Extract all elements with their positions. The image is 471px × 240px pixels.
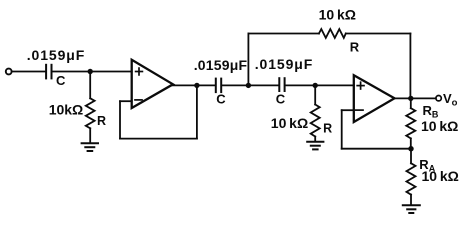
svg-text:.0159μF: .0159μF [27,47,85,63]
svg-text:R: R [323,121,332,135]
resistor R feedback 10k [319,29,346,38]
ground G2 [307,142,323,150]
svg-text:Vo: Vo [443,91,458,109]
wire top feedback right segment [346,33,411,35]
U1 plus input sign [136,71,143,73]
wire U2 output to Vo terminal [394,97,436,99]
wire top feedback left segment [248,33,319,35]
node D junction dot (between C2 and C3) [246,83,251,88]
op-amp U1 [132,60,173,108]
svg-text:.0159μF: .0159μF [255,56,313,72]
svg-text:R: R [97,114,106,128]
wire U1 minus input stub [120,100,132,102]
U1 minus input sign [135,99,142,101]
resistor R2 [311,105,320,137]
wire R1 to ground [89,128,91,143]
svg-text:RB: RB [423,103,439,119]
wire node F down to RB [410,98,412,108]
node E junction dot [313,83,318,88]
resistor R1 [86,98,95,128]
svg-text:10 kΩ: 10 kΩ [271,115,308,131]
svg-text:C: C [276,92,286,107]
svg-text:C: C [56,73,66,88]
wire U1 output to C2 [173,84,216,86]
U2 minus input sign [356,109,363,111]
wire node A down to R1 [89,72,91,99]
svg-text:.0159μF: .0159μF [194,57,248,73]
capacitor C1 [46,65,51,79]
wire input terminal to C1 [12,71,45,73]
wire RA to ground [410,195,412,205]
wire U1 feedback left vertical [119,101,121,138]
op-amp U2 [354,75,395,122]
node A junction dot [88,69,93,74]
ground G1 [82,143,98,151]
svg-text:10 kΩ: 10 kΩ [422,168,459,184]
svg-text:10 kΩ: 10 kΩ [421,118,458,134]
wire U1 feedback bottom [120,138,197,140]
wire U2 feedback bottom [342,148,411,150]
svg-text:10kΩ: 10kΩ [49,102,84,118]
node G junction dot (between RB and RA) [408,146,413,151]
svg-text:R: R [350,40,360,55]
wire C3 to op-amp U2 + input [286,84,354,86]
wire R2 to ground [314,137,316,142]
capacitor C2 [216,79,221,93]
svg-text:10 kΩ: 10 kΩ [319,6,356,22]
wire node G to RA [410,149,412,164]
U2 plus input sign [357,85,364,87]
resistor RB [406,108,415,138]
node F junction dot (U2 output) [408,96,413,101]
wire U2 minus input stub [342,109,354,111]
input terminal (open circle) [6,69,12,75]
node B junction dot (U1 output) [194,83,199,88]
resistor RA [407,163,416,194]
wire top feedback down to U2 output [409,34,411,99]
wire C2 to C3 [222,84,278,86]
wire U1 feedback right vertical [196,85,198,138]
wire U2 feedback left vertical [341,110,343,149]
capacitor C3 [279,78,284,91]
wire node D up to feedback resistor R [247,34,249,86]
output terminal Vo (open circle) [436,96,441,101]
wire node E down to R2 [314,85,316,104]
wire C1 to op-amp U1 + input [53,71,132,73]
svg-text:C: C [216,92,226,107]
ground G3 [403,205,420,213]
wire RB to node G [410,138,412,148]
